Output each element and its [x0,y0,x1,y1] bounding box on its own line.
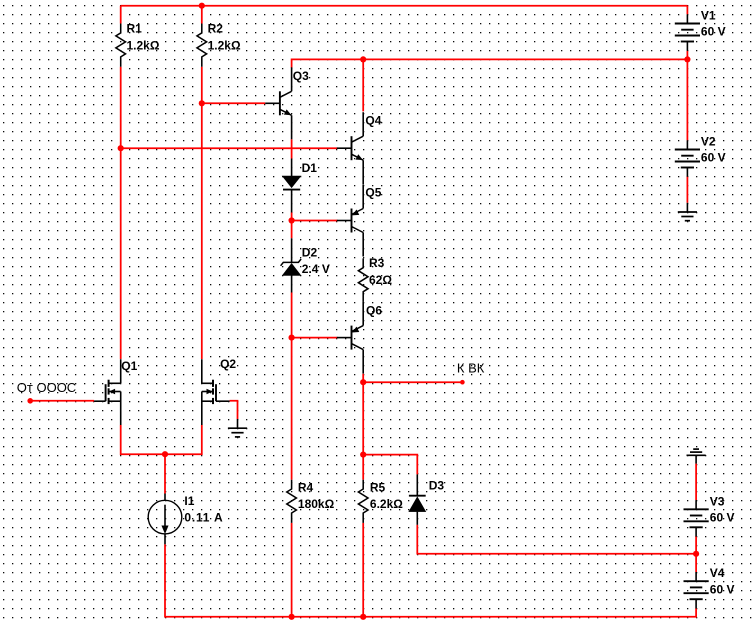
svg-text:Q1: Q1 [121,359,137,373]
diode D3 [416,474,418,495]
wire Q3 emitter to D1 anode [291,139,293,158]
svg-text:2.4 V: 2.4 V [302,262,330,276]
wire R4 bottom drop [291,523,293,617]
battery V3 60V [695,500,697,509]
svg-text:I1: I1 [184,494,194,508]
node junction D1/D2/Q5-base [289,217,295,223]
svg-text:D2: D2 [302,245,318,259]
svg-text:R1: R1 [127,21,143,35]
wire V1 top drop [686,6,688,15]
node output wire end [460,380,465,385]
svg-text:180kΩ: 180kΩ [298,497,335,511]
svg-text:60 V: 60 V [701,25,726,39]
wire Q4 collector riser [362,59,364,111]
node junction top rail / R2 [199,3,205,9]
svg-text:К ВК: К ВК [457,360,485,375]
wire Q2 gate to ground [230,401,238,419]
ground at V2 minus [686,203,688,212]
resistor R4 180k [287,480,297,523]
resistor R5 6.2k [358,480,368,523]
battery V2 60V [686,140,688,149]
diode D1 [291,159,293,176]
wire top rail (V1+ to R1/R2 tops) [121,5,688,7]
svg-text:D3: D3 [429,478,445,492]
resistor R1 1.2k [116,24,126,67]
battery V1 60V [686,14,688,23]
svg-text:Q5: Q5 [365,186,381,200]
node input wire end [27,398,33,404]
wire input from OOOC to Q1 gate [30,400,94,402]
node junction R5 bottom [360,614,366,620]
ground above V3 [693,448,699,450]
wire R1 top drop [120,6,122,24]
svg-text:От ОООС: От ОООС [17,380,76,395]
resistor R3 62 ohm [358,258,368,301]
wire V3- to V4+ segment [695,536,697,572]
wire Q6 collector down to R5 top [362,374,364,480]
svg-text:60 V: 60 V [710,511,735,525]
wire bottom rail [165,544,696,617]
transistor Q3 (NPN) [265,102,280,104]
svg-text:Q4: Q4 [365,114,381,128]
svg-text:V1: V1 [701,9,716,23]
svg-text:1.2kΩ: 1.2kΩ [208,38,241,52]
node junction R1/Q4-base tap [118,145,124,151]
transistor Q5 (PNP) [337,220,352,222]
wire D3 anode to V3/V4 midpoint [417,525,696,554]
transistor Q4 (NPN) [337,147,352,149]
wire Q4 base wire [121,147,338,149]
svg-text:60 V: 60 V [710,582,735,596]
svg-text:Q3: Q3 [293,69,309,83]
wire R2 column (R2 bottom to Q2 drain) [201,67,203,359]
svg-text:62Ω: 62Ω [369,273,392,287]
node junction Q6 collector / output [360,379,366,385]
transistor Q2 (NMOS, mirrored) [212,380,214,387]
svg-text:R3: R3 [369,256,385,270]
svg-text:V2: V2 [701,135,716,149]
wire collector rail y59 (Q3 C / Q4 C / V1-) [292,59,688,67]
transistor Q6 (PNP) [337,337,352,339]
svg-text:R2: R2 [208,21,224,35]
node junction V1 bottom [684,56,690,62]
svg-text:R5: R5 [370,481,386,495]
wire output stub K VK [363,381,462,383]
wire D1 cathode to D2 cathode [291,213,293,239]
wire V2- to ground [686,176,688,202]
wire R1 column (R1 bottom to Q1 drain) [120,67,122,359]
resistor R2 1.2k [197,24,207,67]
wire V1- to V2+ segment [686,51,688,141]
svg-text:R4: R4 [298,481,314,495]
transistor Q1 (NMOS input) [108,380,110,387]
svg-text:Q6: Q6 [366,304,382,318]
node junction R2/Q3-base tap [199,100,205,106]
node junction sources / I1 top [162,451,168,457]
wire Q6 base wire [292,337,338,339]
svg-text:6.2kΩ: 6.2kΩ [370,497,403,511]
wire I1 top [164,454,166,493]
wire ground to V3 top [695,464,697,501]
node junction D2-R4 / Q6 base tap [289,335,295,341]
svg-text:1.2kΩ: 1.2kΩ [127,38,160,52]
wire D2 anode down to R4 top [291,293,293,480]
wire Q1/Q2 source join [121,425,202,454]
node junction R4 bottom [289,614,295,620]
node junction Q4 collector [360,56,366,62]
battery V4 60V [695,572,697,581]
svg-text:Q2: Q2 [220,357,236,371]
node junction R5/D3 tap [360,452,366,458]
wire to D3 top [363,455,417,475]
wire Q5 base wire [292,220,338,222]
svg-text:D1: D1 [302,161,318,175]
node junction V3/V4 midpoint [693,551,699,557]
svg-text:V4: V4 [710,566,725,580]
svg-text:0.11 A: 0.11 A [184,510,223,524]
zener diode D2 2.4V [291,238,293,262]
wire R2 top drop [201,6,203,24]
current source I1 0.11A [164,494,166,501]
wire R5 bottom drop [362,523,364,617]
svg-text:V3: V3 [710,494,725,508]
svg-text:60 V: 60 V [701,151,726,165]
ground at Q2 gate [237,419,239,428]
wire Q3 base wire [202,102,265,104]
